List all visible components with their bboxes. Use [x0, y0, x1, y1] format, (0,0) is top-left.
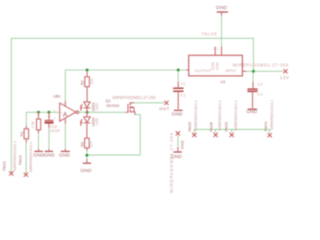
- svg-text:12V: 12V: [280, 75, 290, 80]
- svg-text:WIREPADS3.81/1.1: WIREPADS3.81/1.1: [270, 100, 274, 130]
- svg-text:R2: R2: [81, 80, 85, 85]
- svg-text:PAD6: PAD6: [208, 122, 213, 132]
- svg-text:COM: COM: [211, 62, 215, 70]
- svg-text:0.1: 0.1: [180, 92, 185, 97]
- svg-text:120: 120: [90, 78, 94, 84]
- svg-text:INPUT: INPUT: [225, 69, 237, 73]
- svg-text:OUT: OUT: [159, 106, 170, 111]
- svg-text:OUTPUT: OUTPUT: [195, 68, 213, 73]
- svg-text:R1: R1: [19, 132, 24, 137]
- svg-text:WIREPADS3.81/1.1: WIREPADS3.81/1.1: [218, 100, 222, 130]
- svg-text:WIREPADS3.81/1.1: WIREPADS3.81/1.1: [13, 141, 17, 171]
- svg-text:R3: R3: [79, 142, 84, 147]
- svg-text:GND: GND: [172, 112, 183, 118]
- svg-text:Q1: Q1: [105, 98, 111, 103]
- svg-text:A: A: [63, 112, 68, 119]
- svg-text:WIREPADS3.81/1.1: WIREPADS3.81/1.1: [29, 142, 33, 172]
- svg-text:PAD1: PAD1: [1, 161, 6, 171]
- svg-text:U1: U1: [221, 79, 227, 84]
- svg-text:U$1: U$1: [53, 94, 61, 99]
- svg-text:+: +: [54, 117, 56, 121]
- svg-text:GND: GND: [59, 153, 70, 159]
- svg-text:C1: C1: [181, 81, 186, 86]
- svg-text:2N7002: 2N7002: [106, 104, 119, 108]
- svg-text:8: 8: [61, 103, 65, 105]
- svg-text:PAD2: PAD2: [17, 155, 22, 165]
- svg-text:C2: C2: [258, 81, 263, 86]
- svg-text:100: 100: [89, 141, 93, 147]
- svg-text:+: +: [61, 111, 63, 115]
- svg-text:78L05: 78L05: [202, 32, 218, 37]
- svg-text:1: 1: [217, 46, 219, 50]
- svg-text:GND: GND: [44, 153, 55, 159]
- svg-text:+: +: [213, 46, 215, 50]
- svg-text:GND: GND: [181, 140, 185, 149]
- svg-text:WIREPADS3.81/1.1: WIREPADS3.81/1.1: [234, 100, 238, 130]
- svg-text:COM: COM: [215, 62, 219, 70]
- svg-text:GND: GND: [246, 109, 257, 115]
- svg-text:PAD4: PAD4: [263, 121, 268, 132]
- svg-text:PAD3: PAD3: [224, 122, 229, 132]
- svg-text:WIREPADSMD1.27-254: WIREPADSMD1.27-254: [112, 95, 156, 100]
- svg-text:LED: LED: [95, 103, 99, 111]
- svg-text:3: 3: [49, 114, 51, 118]
- svg-text:WIREPADSMD1.27-254: WIREPADSMD1.27-254: [169, 132, 174, 193]
- svg-text:LED: LED: [95, 118, 99, 126]
- svg-text:GND: GND: [80, 168, 91, 174]
- svg-text:WIREPADSMD1.27-254: WIREPADSMD1.27-254: [233, 63, 289, 68]
- svg-text:GND: GND: [216, 5, 227, 11]
- svg-text:0.1: 0.1: [257, 91, 262, 96]
- svg-text:PAD5: PAD5: [187, 122, 192, 132]
- svg-text:1G15F: 1G15F: [50, 129, 60, 133]
- svg-text:WIREPADS3.81/1.1: WIREPADS3.81/1.1: [194, 100, 198, 130]
- svg-text:1.5k: 1.5k: [31, 121, 35, 128]
